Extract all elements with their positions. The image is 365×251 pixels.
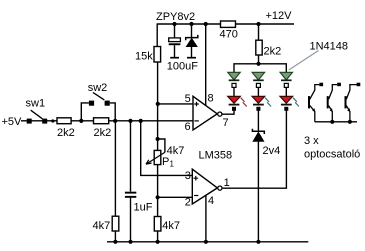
resistor 2k2 second (horizontal) — [94, 118, 109, 124]
wire 15k bottom to P1 top — [157, 62, 159, 150]
switch sw2 — [89, 92, 110, 105]
capacitor C1 100uF — [169, 38, 181, 58]
wire zener ZPY bottom lead — [191, 47, 193, 58]
node 1uF top — [128, 119, 132, 123]
wire op-amp U2 pin3 branch — [141, 121, 193, 176]
potentiometer P1 4k7 — [146, 150, 165, 164]
svg-text:4: 4 — [208, 195, 214, 207]
LED L1 red — [228, 96, 241, 103]
resistor 4k7 left vertical — [112, 216, 119, 231]
wire op-amp U1 pin8 vertical — [205, 24, 207, 106]
node sw2 right — [113, 119, 117, 123]
svg-text:1: 1 — [224, 177, 230, 189]
diode D3 1N4148 — [280, 72, 292, 80]
svg-text:optocsatoló: optocsatoló — [304, 149, 360, 161]
LED column 2 — [252, 72, 271, 110]
LED L3 red — [280, 96, 293, 103]
svg-text:7: 7 — [223, 117, 229, 129]
svg-text:470: 470 — [220, 29, 238, 41]
op-amp U1 (pins 5,6,7,8) — [193, 96, 222, 130]
svg-text:+12V: +12V — [266, 10, 293, 22]
wire P1 wiper link — [158, 139, 165, 152]
op-amp U2 (pins 1,2,3,4) — [192, 169, 222, 204]
node small dot after sw1 — [51, 119, 54, 122]
wire op-amp U2 pin2 input — [158, 196, 193, 198]
svg-text:ZPY8v2: ZPY8v2 — [156, 11, 195, 23]
wire zener 2v4 to ground — [257, 141, 259, 242]
switch sw1 — [27, 110, 48, 123]
wire opto emitter rail — [315, 121, 357, 123]
svg-text:4k7: 4k7 — [162, 220, 180, 232]
wire sw2 branch — [81, 103, 115, 121]
svg-text:2k2: 2k2 — [264, 46, 282, 58]
svg-text:2: 2 — [185, 196, 191, 208]
wire LED anode bus — [234, 64, 286, 72]
wire op-amp U1 pin5 input — [158, 103, 193, 105]
svg-text:15k: 15k — [135, 51, 153, 63]
node pin3 branch — [139, 119, 143, 123]
optocoupler Q1 — [309, 83, 323, 122]
label pointer 1N4148 — [289, 51, 319, 71]
resistor 2k2 top — [256, 40, 262, 55]
node sw2 left — [79, 119, 83, 123]
svg-text:sw2: sw2 — [88, 82, 108, 94]
optocoupler Q2 — [328, 83, 341, 122]
zener 2v4 — [252, 129, 264, 142]
svg-text:5: 5 — [185, 93, 191, 105]
svg-text:+5V: +5V — [2, 116, 23, 128]
LED column 1 — [228, 72, 247, 110]
optocoupler Q3 — [346, 83, 361, 122]
node ground junctions — [113, 240, 117, 244]
LED column 3 — [280, 72, 299, 110]
capacitor 1uF — [125, 192, 136, 198]
svg-text:1: 1 — [170, 160, 175, 169]
wire cap 100uF top lead — [174, 24, 176, 38]
svg-text:P: P — [162, 156, 169, 168]
svg-text:3 x: 3 x — [304, 135, 319, 147]
svg-text:sw1: sw1 — [26, 97, 46, 109]
svg-text:100uF: 100uF — [167, 61, 198, 73]
wire op-amp U2 pin4 ground — [205, 195, 207, 242]
svg-text:2k2: 2k2 — [94, 127, 112, 139]
svg-text:1uF: 1uF — [134, 202, 153, 214]
wire +12V to 2k2 — [258, 24, 260, 40]
diode D1 1N4148 — [228, 72, 240, 80]
wire LED2 to zener 2v4 — [257, 111, 259, 132]
svg-text:1N4148: 1N4148 — [310, 41, 349, 53]
diode D2 1N4148 — [252, 72, 264, 80]
wire cap 100uF bottom lead — [174, 45, 176, 57]
LED L2 red — [252, 96, 265, 103]
wire op-amp U1 pin7 output — [222, 111, 234, 115]
wire P1 to 4k7 to ground — [157, 165, 159, 242]
wire top 8v2 rail — [157, 23, 294, 25]
svg-text:6: 6 — [185, 121, 191, 133]
node pin5 divider — [156, 102, 160, 106]
wire 1uF vertical — [130, 121, 132, 242]
wire ground rail — [107, 241, 308, 243]
wire 2k2 to LED bus — [258, 55, 260, 64]
resistor 2k2 first (horizontal) — [57, 118, 71, 124]
node LED bus center — [256, 62, 260, 66]
zener ZPY8v2 — [186, 35, 198, 58]
resistor 4k7 right vertical — [154, 217, 161, 232]
svg-text:2v4: 2v4 — [263, 145, 281, 157]
wire 15k branch vertical — [156, 24, 158, 47]
wire zener ZPY top lead — [191, 24, 193, 37]
svg-text:LM358: LM358 — [199, 150, 233, 162]
svg-text:4k7: 4k7 — [93, 220, 111, 232]
wire op-amp U2 pin1 output to LED3 — [223, 111, 287, 189]
svg-text:2k2: 2k2 — [57, 127, 75, 139]
resistor 470 — [221, 21, 236, 27]
node dots on 8v2 rail — [51, 22, 260, 244]
svg-text:3: 3 — [185, 170, 191, 182]
wire main +5V rail — [21, 120, 193, 122]
node pin2 tap — [156, 195, 160, 199]
svg-text:8: 8 — [208, 93, 214, 105]
node P1 wiper — [156, 137, 160, 141]
resistor 15k — [154, 47, 161, 63]
wire 4k7 left vertical — [114, 121, 116, 242]
